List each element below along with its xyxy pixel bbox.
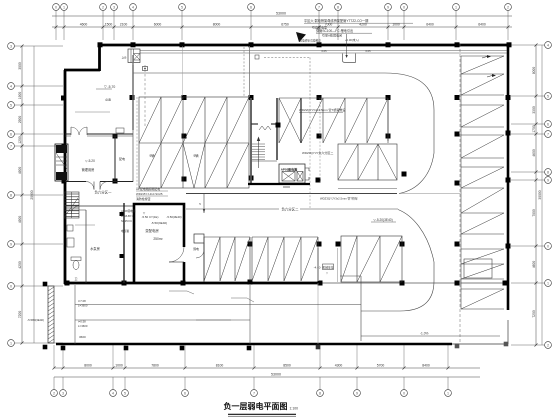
columns grid row y244 — [248, 242, 511, 249]
dashed axis lines near core — [259, 98, 320, 208]
svg-text:-5.50(3E40): -5.50(3E40) — [166, 215, 181, 219]
svg-text:0: 0 — [403, 392, 405, 396]
cable tray riser at entrance — [133, 55, 145, 130]
svg-text:1: 1 — [10, 342, 12, 346]
misc leader lines — [75, 112, 110, 225]
svg-text:7200: 7200 — [532, 310, 536, 318]
svg-text:9辆: 9辆 — [194, 153, 200, 158]
svg-text:-4.60: -4.60 — [314, 266, 321, 270]
svg-text:4200: 4200 — [18, 261, 22, 269]
svg-text:4: 4 — [547, 44, 549, 48]
svg-text:9: 9 — [10, 243, 12, 247]
svg-text:53000: 53000 — [271, 373, 281, 377]
svg-text:WDZ-BYJ: WDZ-BYJ — [121, 214, 134, 218]
svg-text:平区六 弱电桥架母线桥架配管YTTZ2-CO一期: 平区六 弱电桥架母线桥架配管YTTZ2-CO一期 — [304, 18, 368, 23]
svg-text:引至A栋弱电间: 引至A栋弱电间 — [322, 33, 342, 38]
level mark -5.20 — [371, 218, 396, 222]
svg-text:250m²: 250m² — [153, 237, 163, 241]
svg-text:8400: 8400 — [422, 363, 430, 367]
zone boundary line 负六分区二 — [186, 194, 460, 214]
svg-text:3: 3 — [10, 45, 12, 49]
svg-text:4600: 4600 — [532, 149, 536, 157]
svg-text:-5.50 CY(1E): -5.50 CY(1E) — [142, 215, 159, 219]
svg-text:卫: 卫 — [74, 277, 77, 281]
svg-text:5: 5 — [10, 104, 12, 108]
top annotation texts and entry arrow — [296, 18, 413, 42]
svg-text:1: 1 — [63, 6, 65, 10]
parking stalls P2 upper — [279, 98, 388, 143]
svg-text:-5.580(3E40): -5.580(3E40) — [27, 318, 44, 322]
electrical room leader labels — [121, 186, 182, 233]
svg-text:WDZ2QYJY2x1.5mm 管T桥架敷设: WDZ2QYJY2x1.5mm 管T桥架敷设 — [299, 107, 345, 112]
svg-text:1000: 1000 — [115, 363, 123, 367]
svg-text:2: 2 — [507, 6, 509, 10]
svg-text:6000: 6000 — [154, 23, 162, 27]
columns grid row y98 — [130, 95, 511, 100]
svg-text:负一层弱电平面图: 负一层弱电平面图 — [224, 401, 288, 411]
svg-text:44B: 44B — [105, 98, 111, 102]
svg-text:负六分区一: 负六分区一 — [95, 190, 113, 195]
driveway lane lines — [133, 38, 507, 344]
level mark -4.60 mechanical parking — [314, 248, 338, 282]
dashed column line right strip — [459, 44, 461, 344]
ramp lines bottom strip — [75, 285, 361, 344]
svg-text:2900: 2900 — [18, 116, 22, 124]
parking stalls P1 center block — [137, 97, 249, 188]
svg-text:1: 1 — [447, 392, 449, 396]
svg-text:6750: 6750 — [281, 23, 289, 27]
svg-text:▽-5.20: ▽-5.20 — [85, 159, 95, 163]
parking stalls P3 — [338, 144, 397, 189]
svg-text:4900: 4900 — [18, 216, 22, 224]
svg-text:0.05: 0.05 — [365, 49, 371, 53]
svg-text:7200: 7200 — [18, 311, 22, 319]
svg-text:8: 8 — [319, 392, 321, 396]
svg-text:0: 0 — [10, 285, 12, 289]
parking stalls P4 right strip — [461, 55, 504, 309]
svg-text:6400: 6400 — [426, 23, 434, 27]
svg-text:WDZ3QYJY3x2.5mm 管T桥架: WDZ3QYJY3x2.5mm 管T桥架 — [320, 197, 358, 201]
svg-text:4: 4 — [112, 392, 114, 396]
right axis grid dimension lines — [511, 42, 551, 349]
svg-text:4300: 4300 — [335, 363, 343, 367]
svg-text:4600: 4600 — [80, 23, 88, 27]
svg-text:8: 8 — [10, 194, 12, 198]
svg-text:53000: 53000 — [276, 12, 286, 16]
svg-text:AP08弱电箱: AP08弱电箱 — [121, 209, 136, 213]
columns left wall — [62, 144, 67, 184]
svg-text:上B: 上B — [122, 56, 127, 60]
svg-text:7: 7 — [547, 133, 549, 137]
svg-text:1: 1 — [547, 282, 549, 286]
svg-text:0: 0 — [547, 245, 549, 249]
svg-text:7: 7 — [318, 6, 320, 10]
svg-text:管理用房: 管理用房 — [82, 167, 95, 172]
svg-text:6: 6 — [184, 392, 186, 396]
svg-text:4600: 4600 — [532, 261, 536, 269]
svg-text:-1.0%: -1.0% — [420, 332, 428, 336]
svg-text:1900: 1900 — [18, 92, 22, 100]
bottom axis grid dimension lines — [51, 345, 480, 396]
svg-text:2: 2 — [53, 392, 55, 396]
left axis grid dimension lines — [8, 43, 63, 347]
svg-text:4900: 4900 — [18, 167, 22, 175]
svg-text:6: 6 — [547, 123, 549, 127]
svg-text:3: 3 — [62, 392, 64, 396]
svg-text:i=7.08: i=7.08 — [78, 299, 86, 303]
svg-text:8100: 8100 — [216, 363, 224, 367]
svg-text:变配电房: 变配电房 — [145, 228, 159, 233]
columns grid row y180 — [113, 172, 511, 186]
svg-text:5700: 5700 — [377, 363, 385, 367]
svg-text:30000: 30000 — [538, 190, 542, 199]
svg-text:8000: 8000 — [213, 23, 221, 27]
svg-text:3000: 3000 — [18, 62, 22, 70]
small utility room — [193, 234, 204, 282]
svg-text:9: 9 — [356, 392, 358, 396]
svg-text:9: 9 — [547, 179, 549, 183]
svg-text:9辆: 9辆 — [150, 153, 156, 158]
svg-text:0.05: 0.05 — [321, 49, 327, 53]
svg-text:弱电: 弱电 — [193, 246, 199, 251]
svg-text:8500: 8500 — [283, 363, 291, 367]
svg-text:3: 3 — [113, 6, 115, 10]
staircase lower-left — [64, 192, 79, 218]
svg-text:7800: 7800 — [151, 363, 159, 367]
svg-text:4: 4 — [132, 6, 134, 10]
svg-text:-5.50(3E40): -5.50(3E40) — [151, 221, 167, 225]
svg-text:3600: 3600 — [79, 335, 86, 339]
svg-text:7: 7 — [10, 145, 12, 149]
svg-text:8: 8 — [547, 171, 549, 175]
left ventilation shaft — [55, 144, 68, 181]
svg-text:8000: 8000 — [532, 67, 536, 75]
columns grid row y135 — [113, 131, 511, 139]
svg-text:2: 2 — [102, 6, 104, 10]
svg-text:负六分区二: 负六分区二 — [282, 207, 300, 212]
svg-text:2100: 2100 — [120, 23, 128, 27]
svg-text:机械车位: 机械车位 — [322, 265, 333, 269]
svg-text:4: 4 — [10, 85, 12, 89]
svg-text:5: 5 — [547, 95, 549, 99]
svg-text:2: 2 — [547, 344, 549, 348]
svg-text:i=0.58: i=0.58 — [78, 320, 86, 324]
svg-text:8: 8 — [337, 6, 339, 10]
columns on interior bottom wall — [65, 280, 508, 286]
svg-text:WDZ3QYJY负六分区二: WDZ3QYJY负六分区二 — [302, 150, 333, 155]
svg-text:配电: 配电 — [119, 156, 125, 161]
svg-text:消防栓按钮: 消防栓按钮 — [136, 196, 151, 201]
svg-text:5: 5 — [124, 392, 126, 396]
svg-text:6: 6 — [10, 133, 12, 137]
svg-text:0: 0 — [55, 6, 57, 10]
svg-text:L=3600: L=3600 — [78, 304, 88, 308]
svg-text:电表箱: 电表箱 — [121, 229, 129, 233]
title 负一层弱电平面图 1:100 — [224, 401, 299, 416]
svg-text:▽ -5.70: ▽ -5.70 — [104, 85, 115, 89]
svg-text:穿管SC100—FC 埋地引出: 穿管SC100—FC 埋地引出 — [316, 28, 353, 33]
parking stalls P5 bottom-left — [204, 237, 318, 281]
columns on bottom outer wall — [43, 282, 509, 351]
svg-text:L=3600: L=3600 — [78, 324, 88, 328]
svg-text:水泵房: 水泵房 — [90, 246, 100, 251]
svg-text:AP配电箱照明配电: AP配电箱照明配电 — [136, 186, 160, 191]
svg-text:20000: 20000 — [30, 190, 34, 199]
svg-text:8000: 8000 — [84, 363, 92, 367]
svg-text:1700: 1700 — [532, 125, 536, 133]
svg-text:WDZ-BYJ-3x4 SC25: WDZ-BYJ-3x4 SC25 — [136, 192, 163, 196]
cable tray labels — [299, 107, 345, 155]
mid-left room walls and door — [65, 65, 133, 190]
entrance gate symbol top wall — [122, 49, 140, 63]
svg-text:1500: 1500 — [105, 23, 113, 27]
svg-text:SC25 FC: SC25 FC — [121, 219, 132, 223]
device box below tray with leader arrow — [343, 34, 356, 62]
svg-text:弱电桥架沿墙敷设: 弱电桥架沿墙敷设 — [299, 39, 321, 43]
electrical room thick walls — [134, 204, 184, 282]
svg-text:0: 0 — [403, 6, 405, 10]
svg-text:3300: 3300 — [532, 106, 536, 114]
hatched retaining wall bottom-left — [27, 286, 54, 343]
svg-text:7000: 7000 — [532, 209, 536, 217]
svg-text:5: 5 — [181, 6, 183, 10]
svg-text:1:100: 1:100 — [290, 407, 299, 411]
building outer walls — [56, 44, 511, 344]
svg-text:7: 7 — [253, 392, 255, 396]
top axis grid dimension lines — [52, 4, 512, 40]
svg-text:9: 9 — [387, 6, 389, 10]
svg-text:▽-5.20(3E40): ▽-5.20(3E40) — [373, 218, 392, 222]
svg-text:+0.00(未入): +0.00(未入) — [345, 38, 359, 42]
parking stalls P6 bottom-right — [341, 236, 402, 282]
svg-text:AP03配电箱: AP03配电箱 — [281, 167, 298, 172]
elevator core — [248, 164, 310, 187]
svg-text:1200: 1200 — [18, 136, 22, 144]
svg-text:6400: 6400 — [478, 23, 486, 27]
staircase center core — [251, 98, 277, 183]
lower-left rooms fixtures — [65, 203, 134, 283]
svg-text:1: 1 — [455, 6, 457, 10]
upper-left room level mark — [61, 85, 124, 133]
svg-text:6: 6 — [250, 6, 252, 10]
columns on top wall — [98, 42, 512, 47]
